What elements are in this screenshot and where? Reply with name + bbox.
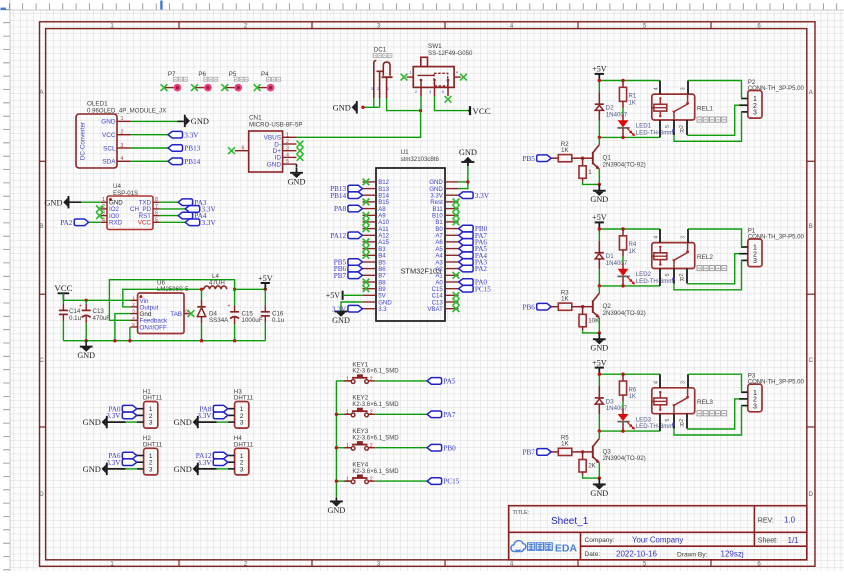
svg-text:P2: P2 [748,79,756,86]
net PA2 at U1 right [459,265,488,273]
net PA12 at U1 [330,232,362,240]
net PB0 at KEY3 [427,444,456,452]
switch SW1 SS-12F49-G050 [407,43,473,96]
resistor R2 1K [551,141,582,162]
push button KEY3 K2-3.6x6.1_SMD [336,428,399,450]
svg-text:Drawn By:: Drawn By: [677,551,708,558]
svg-text:U1: U1 [401,149,410,156]
svg-text:D: D [39,492,44,498]
svg-text:GND: GND [590,489,608,498]
svg-text:K2-3.6×6.1_SMD: K2-3.6×6.1_SMD [352,402,399,408]
svg-text:stm32103c8t6: stm32103c8t6 [401,156,440,163]
power flag +5V for REL3 [592,358,607,374]
transistor Q1 2N3904 [583,137,646,169]
svg-text:GND: GND [332,316,350,325]
svg-text:+5V: +5V [592,213,607,222]
svg-text:+5V: +5V [326,291,341,300]
svg-text:Company:: Company: [585,537,615,544]
junction C14 bottom [85,339,88,342]
svg-text:1N4007: 1N4007 [606,405,628,412]
no-connect U1 B9 [363,285,370,292]
no-connect U4 IO0 [96,212,103,219]
ground flag at U4 [44,196,81,208]
net 3.3V at H2 [106,459,136,467]
wire emitter to ground node [583,318,600,333]
junction R6 top [621,373,624,376]
net PA6 at H2 [108,452,136,460]
wire bottom ground rail [63,340,265,342]
svg-text:PB13: PB13 [184,145,200,153]
net PB7 at U1 [334,272,363,280]
svg-text:6: 6 [242,146,245,152]
resistor R1 1K [619,81,637,121]
svg-text:6: 6 [155,211,158,217]
svg-text:1: 1 [588,169,592,176]
svg-text:EDA: EDA [555,543,578,555]
svg-text:4: 4 [653,87,659,90]
svg-text:TITLE:: TITLE: [513,510,530,516]
svg-text:1: 1 [132,295,135,300]
wire VBUS net to switch [297,111,421,138]
wire relay NO to P2 pin1 [688,81,742,99]
svg-text:ON#/OFF: ON#/OFF [140,324,167,331]
svg-text:GND: GND [83,465,101,474]
junction C15 bottom [233,339,236,342]
net PA4 [178,212,207,220]
net PB0 at U1 right [459,225,488,233]
svg-text:2: 2 [370,477,373,483]
svg-text:3.3V: 3.3V [197,412,212,420]
svg-text:A: A [39,90,43,96]
svg-text:SS34A: SS34A [209,317,229,324]
svg-text:1.0: 1.0 [784,516,796,525]
svg-text:LED-TH-3mm: LED-TH-3mm [636,130,674,137]
svg-text:3: 3 [121,143,124,149]
wire OLED SDA [131,160,168,162]
ground at supply [77,341,95,360]
relay REL1 [652,81,727,138]
svg-text:+: + [227,304,230,310]
title block [509,506,807,560]
connector H3 DHT11 [228,388,254,428]
diode D3 1N4007 [595,386,628,414]
junction base node [581,157,584,160]
no-connect U1 B1 [453,219,460,226]
wire +5V rail [599,229,660,241]
wire KEY1 to net [375,380,427,382]
net 3.3V at H4 [197,459,227,467]
wire emitter to ground node [583,169,600,184]
svg-text:2K: 2K [588,463,596,470]
svg-text:3.3V: 3.3V [106,412,121,420]
module OLED1 0.96OLED_4P_MODULE_JX [76,101,166,169]
no-connect U1 B3 [363,245,370,252]
wire U6 Gnd to rail [115,314,131,341]
net PA8 at H3 [199,405,227,413]
svg-text:1K: 1K [629,393,636,400]
svg-text:3: 3 [753,403,757,410]
svg-text:2022-10-16: 2022-10-16 [616,550,657,559]
net 3.3V at H3 [197,412,227,420]
svg-text:3: 3 [681,236,687,239]
svg-text:1/1: 1/1 [788,536,800,545]
svg-text:5: 5 [286,159,289,165]
push button KEY4 K2-3.6x6.1_SMD [336,462,399,484]
junction D4 bottom [200,339,203,342]
junction U6 Gnd [113,339,116,342]
LED LED1 LED-TH-3mm [617,121,673,138]
wire U4 GND [81,201,101,203]
net PA3 at U1 right [459,259,488,267]
svg-text:GND: GND [191,117,209,126]
svg-text:3.3V: 3.3V [184,131,199,139]
svg-text:VBAT: VBAT [427,306,443,313]
no-connect U1 B10 [453,212,460,219]
no-connect U4 IO2 [96,206,103,213]
svg-text:3.3V: 3.3V [202,219,217,227]
regulator U6 LM2596S-5 [131,280,190,334]
svg-text:PB7: PB7 [334,272,347,280]
svg-text:VCC: VCC [473,106,491,116]
svg-text:1: 1 [346,477,349,483]
net PA8 at U1 [334,205,362,213]
no-connect SW1 left [401,74,408,81]
wire U6 Feedback sense [109,280,234,321]
wire emitter to ground node [583,463,600,478]
mounting hole P6 [191,71,218,91]
svg-text:3: 3 [149,420,153,427]
MCU U1 STM32F103 stm32103c8t6 [362,149,458,321]
svg-text:R: R [680,422,684,428]
svg-text:GND: GND [590,344,608,353]
svg-text:LED-TH-3mm: LED-TH-3mm [636,423,674,430]
svg-text:PA2: PA2 [60,219,73,227]
relay REL3 [652,374,727,431]
svg-text:KEY2: KEY2 [352,395,368,402]
net PA3 [178,199,207,207]
svg-text:PB7: PB7 [523,449,536,457]
ground flag at H2 [83,463,137,475]
no-connect U1 VBAT [453,305,460,312]
junction LED bottom [621,429,624,432]
no-connect U1 C14 [453,292,460,299]
svg-text:2N3904(TO-92): 2N3904(TO-92) [603,455,646,462]
push button KEY1 K2-3.6x6.1_SMD [336,361,399,383]
svg-text:2N3904(TO-92): 2N3904(TO-92) [603,310,646,317]
wire relay pin2 to P3 pin2 [687,399,739,429]
junction base node [581,450,584,453]
svg-text:Sheet:: Sheet: [758,537,778,544]
no-connect CN1 D- [297,141,304,148]
junction collector node [598,136,601,139]
no-connect CN1 ID [297,154,304,161]
net 3.3V at OLED [168,131,199,139]
svg-text:3.3V: 3.3V [332,305,347,313]
svg-text:GND: GND [77,351,95,360]
junction emitter node [598,331,601,334]
svg-text:A: A [809,90,813,96]
svg-text:3.3V: 3.3V [475,192,490,200]
svg-text:3: 3 [132,309,135,314]
svg-text:VCC: VCC [102,132,116,139]
resistor R5 1K [551,435,582,456]
svg-text:GND: GND [83,418,101,427]
svg-text:129szj: 129szj [721,550,744,559]
wire U4 VCC [160,221,186,223]
svg-text:7: 7 [155,204,158,210]
net PB5 at U1 [334,259,363,267]
wire LED rail [599,430,660,432]
no-connect CN1 D+ [297,147,304,154]
svg-text:+: + [79,304,82,310]
net PA5 at U1 right [459,245,488,253]
svg-text:VCC: VCC [138,220,152,227]
junction diode node [200,288,203,291]
junction R4 top [621,227,624,230]
svg-text:GND: GND [44,198,62,207]
capacitor C14 0.1u [59,300,82,340]
svg-text:3: 3 [240,466,244,473]
svg-text:REV:: REV: [758,518,774,525]
junction emitter node [598,476,601,479]
svg-text:PA2: PA2 [475,265,488,273]
wire relay NO to P3 pin1 [688,374,742,392]
svg-text:1: 1 [121,116,124,122]
svg-text:DC-Converter: DC-Converter [80,122,87,160]
wire diode to rail [598,269,600,286]
junction collector node [598,284,601,287]
svg-text:PB6: PB6 [523,303,536,311]
power flag +5V supply [261,282,270,284]
ground at keys [328,498,346,515]
resistor base 1 [579,158,592,182]
capacitor C16 0.1u [261,289,285,340]
net PA6 at U1 right [459,239,488,247]
wire relay pin2 to P1 pin2 [687,254,739,284]
svg-text:3: 3 [240,420,244,427]
junction base node [581,305,584,308]
connector P1 CONN-TH_3P-P5.00 [739,227,804,266]
svg-text:2: 2 [286,139,289,145]
svg-text:5: 5 [155,217,158,223]
wire OLED VCC to 3.3V [131,134,168,136]
svg-text:SDA: SDA [102,159,116,166]
svg-text:GND: GND [288,177,306,186]
svg-text:+5V: +5V [258,274,273,283]
wire LED rail [599,136,660,138]
svg-text:PB14: PB14 [330,192,346,200]
svg-text:P1: P1 [748,227,756,234]
svg-text:B: B [39,224,43,230]
svg-text:C: C [39,358,44,364]
svg-text:1K: 1K [561,147,568,154]
capacitor C15 1000uF [227,289,262,340]
no-connect U1 A15 [363,239,370,246]
svg-text:2N3904(TO-92): 2N3904(TO-92) [603,161,646,168]
wire SW1 pin2 down [420,96,422,111]
wire KEY4 to net [375,480,427,482]
svg-text:B: B [809,224,813,230]
resistor R4 1K [619,229,637,269]
LED LED3 LED-TH-3mm [617,414,673,431]
svg-text:5: 5 [665,273,671,276]
junction at GND rail [361,106,364,109]
diode D2 1N4007 [595,92,628,120]
junction +5V stem [598,373,601,376]
svg-text:3: 3 [149,466,153,473]
svg-text:SW1: SW1 [428,43,442,50]
wire KEY3 to net [375,447,427,449]
no-connect U1 A1 [453,272,460,279]
ground flag at OLED [178,115,209,127]
power flag VCC right of SW1 [468,106,491,116]
svg-text:PB5: PB5 [523,155,536,163]
wire SW1 pin3 to VCC [435,96,469,111]
svg-text:1: 1 [346,376,349,382]
power flag VCC input [58,292,70,294]
svg-text:Date:: Date: [585,551,601,558]
resistor base 10K [579,307,600,331]
wire U4 CH_PD [160,208,186,210]
svg-text:1: 1 [286,132,289,138]
svg-text:GND: GND [174,418,192,427]
no-connect U1 B12 [363,179,370,186]
svg-text:GND: GND [333,103,351,112]
wire U4 RST [160,215,179,217]
wire key common vertical [335,381,337,498]
net PB13 at OLED [168,145,201,153]
ground flag at H1 [83,416,137,428]
no-connect U1 A11 [363,225,370,232]
net PA2 at U4 RXD [60,219,88,227]
svg-text:U4: U4 [113,183,122,190]
svg-text:2: 2 [679,419,685,422]
net 3.3V at U4 VCC [185,219,216,227]
svg-text:1: 1 [102,197,105,203]
wire U6 ON/OFF to rail [129,327,131,341]
svg-text:PA5: PA5 [443,378,456,386]
no-connect U6 TAB [188,310,195,317]
net 3.3V at H1 [106,412,136,420]
wire U4 RXD [89,221,101,223]
svg-text:REL1: REL1 [697,105,713,112]
net 3.3V at U1 right [459,192,490,200]
svg-text:3.3: 3.3 [378,306,387,313]
net PC15 at U1 right [459,285,492,293]
svg-text:3: 3 [286,146,289,152]
net PB5 for REL1 [523,155,552,163]
no-connect SW1 right [460,74,467,81]
junction emitter node [598,183,601,186]
svg-text:5: 5 [132,322,135,327]
svg-text:K2-3.6×6.1_SMD: K2-3.6×6.1_SMD [352,469,399,475]
power jack DC1 [371,47,393,99]
wire U1 GND pins [459,166,468,189]
net 3.3V at U1 3.3 [332,305,362,313]
junction key rail KEY4 [335,479,338,482]
svg-text:GND: GND [174,465,192,474]
junction L4 out [233,288,236,291]
wire OLED GND [131,120,178,122]
svg-text:1000uF: 1000uF [242,317,263,324]
svg-text:3.3V: 3.3V [106,459,121,467]
svg-text:Sheet_1: Sheet_1 [551,516,589,527]
junction key rail KEY3 [335,446,338,449]
resistor base 2K [579,452,597,476]
connector CN1 MICRO-USB-8F-5P [235,115,303,173]
connector P3 CONN-TH_3P-P5.00 [739,373,804,412]
push button KEY2 K2-3.6x6.1_SMD [336,395,399,417]
svg-text:VCC: VCC [54,283,72,293]
wire U6 Output to inductor [123,289,204,307]
transistor Q2 2N3904 [583,286,646,318]
svg-text:GND: GND [328,506,346,515]
svg-text:3: 3 [753,258,757,265]
relay REL2 [652,229,727,286]
svg-text:R: R [680,129,684,135]
EasyEDA logo [511,541,578,555]
resistor R6 1K [619,374,637,414]
svg-text:P3: P3 [748,373,756,380]
net PB6 at U1 [334,265,363,273]
net PA0 at H1 [108,405,136,413]
net PA7 at U1 right [459,232,488,240]
svg-text:GND: GND [590,195,608,204]
no-connect U1 B15 [363,199,370,206]
junction collector node [598,429,601,432]
power flag +5V for REL2 [592,213,607,229]
connector H1 DHT11 [137,388,163,428]
ground flag at H4 [174,463,228,475]
net PA5 at KEY1 [427,378,456,386]
module U4 ESP-01S [101,183,160,230]
svg-text:SCL: SCL [103,145,116,152]
junction C13 top [85,299,88,302]
svg-text:2: 2 [370,376,373,382]
svg-text:PC15: PC15 [443,478,459,486]
mounting hole P7 [161,71,188,91]
wire relay NO to P1 pin1 [688,229,742,247]
connector H2 DHT11 [137,435,163,475]
svg-text:KEY1: KEY1 [352,361,368,368]
svg-text:3: 3 [681,87,687,90]
ground at Q3 [590,478,608,498]
svg-text:K2-3.6×6.1_SMD: K2-3.6×6.1_SMD [352,369,399,375]
no-connect CN1 pin 6 [228,147,235,154]
svg-text:2: 2 [679,125,685,128]
svg-text:2: 2 [121,130,124,136]
no-connect U1 B4 [363,252,370,259]
svg-text:K2-3.6×6.1_SMD: K2-3.6×6.1_SMD [352,435,399,441]
svg-text:47UH: 47UH [209,279,225,286]
ground at Q2 [590,333,608,353]
ground flag at DC1 [333,101,357,113]
wire U4 TXD [160,201,179,203]
net PA0 at U1 right [459,279,488,287]
no-connect U1 Rest [453,199,460,206]
svg-text:4: 4 [121,156,124,162]
net PA4 at U1 right [459,252,488,260]
svg-text:5: 5 [665,419,671,422]
mounting hole P5 [221,71,248,91]
no-connect U1 A9 [363,212,370,219]
LED LED2 LED-TH-3mm [617,269,673,286]
mounting hole P4 [254,71,281,91]
net 3.3V at CH_PD [185,206,216,214]
svg-text:Your Company: Your Company [632,535,683,544]
junction +5V node [264,288,267,291]
wire OLED SCL [131,147,168,149]
